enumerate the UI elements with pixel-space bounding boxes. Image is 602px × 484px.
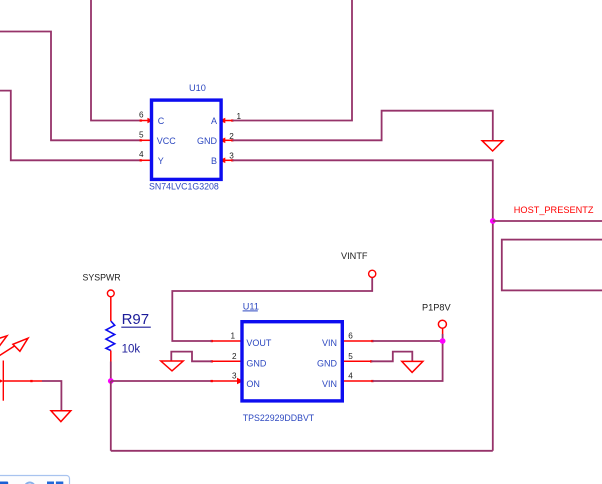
U10 pin 6 stub (140, 118, 154, 124)
resistor R97 bottom lead (110, 351, 112, 362)
resistor R97 body (106, 321, 115, 351)
toolbar popup box (0, 476, 70, 484)
svg-text:3: 3 (232, 372, 237, 381)
U11 pin 6 stub (344, 340, 374, 342)
svg-text:U11: U11 (243, 301, 259, 311)
svg-text:5: 5 (139, 130, 144, 139)
power symbol P1P8V (438, 320, 446, 328)
load switch U11 box (242, 322, 342, 401)
wire net to U10 pin 4 (0, 91, 141, 161)
svg-text:1: 1 (230, 332, 235, 341)
svg-text:TPS22929DDBVT: TPS22929DDBVT (243, 413, 315, 423)
power symbol SYSPWR (107, 290, 114, 297)
wire bottom rail (111, 450, 493, 452)
ground symbol (U11 left) (161, 361, 183, 371)
svg-text:VINTF: VINTF (341, 251, 368, 261)
svg-text:10k: 10k (122, 344, 141, 356)
svg-text:5: 5 (348, 352, 353, 361)
wire U11 pin1 to VINTF (172, 277, 372, 341)
underline U11 (243, 310, 258, 312)
svg-text:SYSPWR: SYSPWR (83, 272, 121, 282)
svg-text:U10: U10 (189, 83, 206, 93)
svg-text:2: 2 (232, 352, 237, 361)
wire junction down to bottom rail (110, 381, 112, 451)
svg-text:VIN: VIN (322, 379, 337, 389)
wire U10 pin2 to ground (232, 111, 492, 141)
svg-text:Y: Y (158, 156, 164, 166)
wire junction to U11 pin3 (111, 380, 212, 382)
svg-text:4: 4 (348, 372, 353, 381)
svg-text:R97: R97 (122, 311, 150, 328)
off-page block (502, 240, 602, 291)
resistor R97 top lead (110, 297, 112, 321)
svg-text:6: 6 (348, 332, 353, 341)
wire net to U10 pin 6 (91, 0, 141, 121)
LED cathode bar (2, 361, 4, 401)
U10 pin 2 stub (219, 138, 233, 144)
op box U10 (152, 100, 222, 179)
svg-text:4: 4 (139, 150, 144, 159)
ground symbol (U10 GND) (482, 141, 503, 151)
svg-text:ON: ON (246, 379, 260, 389)
U11 pin 2 stub (211, 360, 241, 362)
toolbar icon 3 (47, 482, 54, 484)
svg-text:C: C (158, 116, 165, 126)
wire U11 pin6 to P1P8V node (373, 340, 443, 342)
underline R97 (121, 326, 151, 328)
wire net to U10 pin 5 (0, 32, 141, 141)
svg-text:VOUT: VOUT (246, 338, 272, 348)
wire U10 pin3 down right side (232, 160, 492, 451)
U10 pin 1 stub (219, 118, 233, 124)
svg-text:3: 3 (229, 151, 234, 160)
U11 pin 3 stub (211, 378, 244, 384)
U11 pin 4 stub (344, 380, 374, 382)
node HOST_PRESENTZ junction (490, 218, 496, 224)
svg-text:VIN: VIN (322, 338, 337, 348)
svg-text:6: 6 (139, 110, 144, 119)
wire LED to ground (42, 381, 61, 411)
LED pin (3, 380, 42, 382)
svg-text:SN74LVC1G3208: SN74LVC1G3208 (149, 181, 219, 191)
svg-text:A: A (211, 116, 217, 126)
toolbar icon 2 (ring) (25, 483, 35, 484)
svg-text:GND: GND (317, 358, 338, 368)
node junction at R97 (108, 378, 114, 384)
toolbar icon 4 (56, 482, 63, 484)
svg-text:B: B (211, 156, 217, 166)
wire U11 pin4 up to node (373, 341, 443, 381)
wire R97 to junction (110, 362, 112, 382)
U10 pin 5 stub (140, 139, 150, 141)
U11 pin 1 stub (211, 340, 241, 342)
svg-text:P1P8V: P1P8V (422, 302, 451, 312)
wire U10 pin1 to top (232, 0, 352, 121)
LED anode triangle tip (0, 373, 3, 389)
U10 pin 3 stub (219, 158, 233, 164)
LED D? emission arrow 2 (0, 338, 28, 356)
svg-text:VCC: VCC (157, 136, 177, 146)
LED D? emission arrow 1 (0, 336, 7, 354)
node P1P8V junction (440, 338, 446, 344)
svg-text:HOST_PRESENTZ: HOST_PRESENTZ (514, 205, 594, 215)
wire U11 pin2 to ground (171, 352, 211, 362)
wire HOST_PRESENTZ (493, 220, 602, 222)
ground symbol (LED) (51, 411, 71, 422)
svg-text:GND: GND (197, 136, 218, 146)
wire node to P1P8V symbol (442, 334, 444, 341)
ground symbol (U11 right) (402, 361, 423, 372)
U11 pin 5 stub (344, 360, 373, 362)
wire U11 pin5 to ground (371, 352, 412, 362)
power symbol VINTF (369, 270, 376, 277)
U10 pin 4 stub (140, 159, 150, 161)
toolbar icon 1 (0, 482, 8, 484)
svg-text:GND: GND (246, 358, 267, 368)
